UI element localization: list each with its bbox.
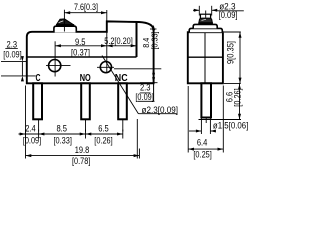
plunger flange front bbox=[54, 26, 76, 32]
svg-text:7.6[0.3]: 7.6[0.3] bbox=[74, 2, 98, 12]
bottom dimension row 1 bbox=[19, 130, 123, 139]
dimension 6.6 [0.26] right side bbox=[199, 83, 242, 119]
svg-text:2.3: 2.3 bbox=[7, 39, 18, 49]
svg-text:9.5: 9.5 bbox=[75, 37, 86, 47]
svg-text:NO: NO bbox=[80, 72, 91, 84]
hole C centerline horizontal bbox=[46, 64, 71, 66]
body interior step edge bbox=[136, 22, 138, 57]
terminal pin NC bbox=[118, 83, 127, 119]
side view body bbox=[188, 32, 223, 83]
hole NC centerline vertical / extension bbox=[106, 10, 108, 73]
terminal pin C bbox=[33, 83, 42, 119]
side body interior line bbox=[188, 56, 223, 58]
dimension dia 1.5[0.06] pin bbox=[189, 119, 215, 135]
svg-text:[0.25]: [0.25] bbox=[193, 150, 211, 160]
leader + label for hole dia 2.3 bbox=[102, 56, 138, 114]
svg-text:NC: NC bbox=[115, 72, 128, 84]
hole NC circle bbox=[100, 62, 111, 73]
side terminal pin bbox=[201, 83, 211, 117]
dimension 2.3 [0.09] right below body bbox=[140, 82, 158, 84]
side cap step 2 bbox=[189, 28, 222, 32]
dimension 9.5 line bbox=[55, 45, 107, 47]
dimension 6.4 [0.25] bottom of side view bbox=[188, 86, 223, 153]
side cap step 1 bbox=[193, 24, 217, 28]
side pin center extension bbox=[205, 118, 207, 124]
svg-text:[0.78]: [0.78] bbox=[72, 156, 90, 166]
svg-text:[0.09]: [0.09] bbox=[219, 10, 238, 20]
side body center parting line bbox=[204, 32, 206, 83]
hole C centerline vertical bbox=[54, 41, 56, 76]
svg-text:5.2[0.20]: 5.2[0.20] bbox=[104, 36, 133, 46]
dimension dia 2.3 top of side view bbox=[193, 6, 244, 16]
svg-text:19.8: 19.8 bbox=[75, 145, 90, 155]
svg-text:[0.09]: [0.09] bbox=[135, 92, 153, 102]
svg-text:ø1.5[0.06]: ø1.5[0.06] bbox=[213, 120, 249, 130]
dimension 9[0.35] right side bbox=[224, 32, 241, 83]
bottom dimension row 2 : 19.8 [0.78] bbox=[26, 86, 140, 159]
pin extension lines bbox=[38, 119, 40, 131]
body interior horizontal line bbox=[27, 56, 137, 58]
svg-text:6.5: 6.5 bbox=[98, 124, 109, 134]
terminal pin NO bbox=[81, 83, 90, 119]
side plunger stem bbox=[199, 14, 201, 18]
svg-text:6.4: 6.4 bbox=[197, 137, 208, 147]
dimension 8.4 [0.33] right of front view bbox=[150, 28, 157, 30]
svg-text:2.4: 2.4 bbox=[25, 124, 36, 134]
dimension 7.6[0.3] top bbox=[64, 10, 106, 32]
svg-text:[0.26]: [0.26] bbox=[232, 88, 242, 106]
svg-text:[0.33]: [0.33] bbox=[54, 135, 72, 145]
svg-text:C: C bbox=[36, 72, 41, 84]
svg-text:[0.26]: [0.26] bbox=[94, 135, 112, 145]
svg-text:[0.09]: [0.09] bbox=[3, 49, 21, 59]
dimension 5.2[0.20] line bbox=[107, 45, 137, 47]
svg-text:8.5: 8.5 bbox=[56, 124, 67, 134]
hole C circle bbox=[49, 60, 61, 72]
hole NC centerline horizontal bbox=[97, 66, 114, 68]
svg-text:ø2.3[0.09]: ø2.3[0.09] bbox=[142, 105, 179, 115]
side plunger dome bbox=[199, 18, 213, 23]
svg-text:[0.37]: [0.37] bbox=[71, 47, 90, 57]
svg-text:[0.33]: [0.33] bbox=[151, 32, 160, 50]
switch body front view outline bbox=[27, 21, 154, 83]
svg-text:9[0.35]: 9[0.35] bbox=[226, 41, 236, 64]
plunger dome front bbox=[57, 19, 74, 25]
svg-text:8.4: 8.4 bbox=[142, 37, 151, 47]
hole NC centerline extension right bbox=[114, 68, 161, 70]
